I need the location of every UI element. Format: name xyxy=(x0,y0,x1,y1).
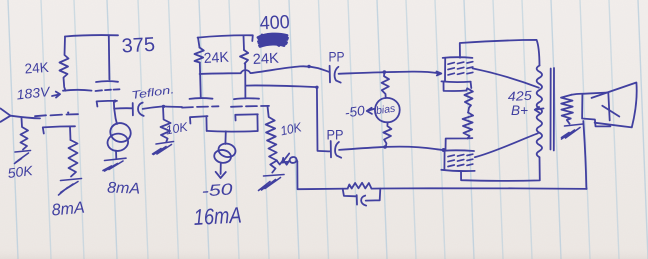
wire speaker to feedback xyxy=(583,121,586,189)
output tube V6 cathode xyxy=(441,170,474,171)
wire V4 cathode down xyxy=(256,114,258,131)
triode V4 cathode xyxy=(235,114,257,120)
speaker LS1 horn xyxy=(592,83,637,128)
resistor R4 10K xyxy=(161,106,171,141)
svg-text:375: 375 xyxy=(121,34,155,58)
ground for R4 xyxy=(153,142,174,155)
svg-text:16mA: 16mA xyxy=(193,203,242,230)
triode V2 plate xyxy=(96,80,118,83)
capacitor C3 PP (bottom) xyxy=(330,141,332,157)
svg-text:24K: 24K xyxy=(203,50,229,67)
potentiometer P1 wiper section xyxy=(277,160,290,165)
triode V3 cathode xyxy=(190,116,208,123)
transformer T1 core xyxy=(551,68,555,151)
resistor R8 (bias divider upper) xyxy=(382,72,389,98)
value label PP (C2) xyxy=(329,49,345,65)
svg-text:Teflon.: Teflon. xyxy=(131,84,175,102)
resistor R2 (V1 cathode) xyxy=(69,140,78,177)
wire V5 cathode to R10 xyxy=(444,82,467,92)
svg-text:B+: B+ xyxy=(511,103,528,118)
wire V5 plate to top rail xyxy=(460,40,540,66)
wire R6 to rail xyxy=(243,36,246,50)
current annotation 8mA (I1) xyxy=(107,180,141,198)
resistor R12 (feedback) xyxy=(348,183,372,189)
wire V3 cathode down xyxy=(205,116,207,131)
wire C1 to V3 grid xyxy=(143,106,182,109)
resistor R7 10K (V4 grid) xyxy=(266,106,277,173)
svg-text:10K: 10K xyxy=(279,119,304,138)
triode V1 cathode xyxy=(43,126,75,133)
svg-text:-50: -50 xyxy=(201,181,233,200)
feedback wire (right section) xyxy=(372,187,587,190)
bias adjust B1 (circle) xyxy=(375,98,400,122)
svg-text:8mA: 8mA xyxy=(107,180,141,198)
value label Teflon xyxy=(131,84,175,102)
resistor R6 24K xyxy=(240,50,248,64)
transformer T1 secondary xyxy=(561,95,573,119)
supply label -50 xyxy=(201,181,233,200)
svg-text:8mA: 8mA xyxy=(51,199,85,220)
supply rail 375 xyxy=(65,35,118,36)
svg-text:50K: 50K xyxy=(7,163,35,181)
supply label 375 xyxy=(121,34,155,58)
scribbled-out old value xyxy=(258,34,288,47)
speaker LS1 driver xyxy=(582,93,610,127)
wire V6 to bottom rail xyxy=(461,157,540,181)
current source I1 xyxy=(108,120,133,144)
wire secondary to ground xyxy=(567,119,571,124)
ground for R7 xyxy=(259,175,285,191)
triode V2 cathode xyxy=(97,101,117,107)
value label 10K xyxy=(165,120,190,138)
triode V1 plate xyxy=(63,89,92,92)
svg-text:24K: 24K xyxy=(24,59,50,77)
wire secondary to speaker xyxy=(572,93,583,96)
wire loop to feedback riser xyxy=(296,160,299,162)
label bias xyxy=(375,102,396,117)
resistor R9 (bias divider lower) xyxy=(383,122,391,146)
wire R5 to rail xyxy=(198,38,200,48)
resistor R11 xyxy=(463,113,474,139)
triode V2 grid (dashed) xyxy=(96,89,120,91)
value label 24K xyxy=(24,59,50,77)
feedback wire (left section) xyxy=(297,162,347,190)
resistor R5 24K xyxy=(195,48,204,63)
output tube V5 plate xyxy=(443,56,473,59)
svg-text:400: 400 xyxy=(259,12,290,35)
node label 183V with arrow xyxy=(52,92,60,98)
supply rail 400 xyxy=(198,35,253,41)
terminal loop P1 xyxy=(290,157,297,163)
wire V1 cathode to R2 xyxy=(69,127,72,141)
current annotation 8mA (V1) xyxy=(51,199,85,220)
svg-text:PP: PP xyxy=(327,127,344,143)
potentiometer wiper arrow xyxy=(282,154,289,163)
label 425 B+ with arrow xyxy=(507,88,533,118)
resistor R3 24K (V1 plate load) xyxy=(60,37,69,91)
output tube V5 left edge xyxy=(444,58,446,81)
svg-text:PP: PP xyxy=(329,49,345,65)
resistor R10 xyxy=(464,88,473,112)
triode V4 plate xyxy=(234,97,259,100)
current source I2 xyxy=(217,142,237,159)
svg-text:425: 425 xyxy=(507,88,533,104)
capacitor C4 (feedback bypass) xyxy=(343,189,356,197)
supply label -50 with arrow xyxy=(367,108,374,114)
wire joining V3/V4 cathodes xyxy=(207,130,258,133)
capacitor C1 Teflon xyxy=(132,103,134,115)
triode V1 grid (dashed) xyxy=(35,114,78,116)
output tube V5 grids (dashed rows) xyxy=(448,62,473,64)
wire screen tap top (ultralinear) xyxy=(473,68,539,87)
wire rail to V2 plate xyxy=(108,35,111,79)
wire tail to I2 xyxy=(224,131,226,144)
value label 24K (R6) xyxy=(252,51,279,68)
svg-text:bias: bias xyxy=(375,102,396,117)
value label 24K (R5) xyxy=(203,50,229,67)
wire A: V3 plate to C2 (with crossover hump) xyxy=(200,66,330,74)
triode V3 plate xyxy=(190,97,213,100)
wire V2 cathode down xyxy=(114,101,117,124)
wire C2 to V5 grid xyxy=(339,72,440,74)
output tube V5 cathode xyxy=(442,80,471,83)
wire B: V4 plate to C3 xyxy=(246,85,331,151)
output tube V6 left edge xyxy=(443,151,445,170)
capacitor C2 PP (top) xyxy=(329,66,331,83)
wire I1 to ground xyxy=(115,151,117,159)
wire C3 to V6 grid xyxy=(339,147,444,150)
ground for R2 xyxy=(59,179,82,196)
svg-text:183V: 183V xyxy=(16,84,52,103)
svg-text:24K: 24K xyxy=(252,51,279,68)
output tube V6 plate xyxy=(444,149,474,152)
wire V3 plate to R5 xyxy=(200,63,201,99)
input connector J1 xyxy=(1,109,11,122)
value label PP (C3) xyxy=(327,127,344,143)
current annotation 16mA xyxy=(193,203,242,230)
wire J1 to V1 grid xyxy=(11,116,41,119)
triode V4 grid (dashed) xyxy=(231,105,269,108)
wire cathode to C1 xyxy=(114,107,132,109)
value label 10K (R7) xyxy=(279,119,304,138)
svg-text:-50: -50 xyxy=(344,103,366,121)
ground for R1 xyxy=(15,151,31,164)
triode V3 grid (dashed) xyxy=(182,106,219,107)
ground for I1 xyxy=(103,158,126,171)
svg-text:10K: 10K xyxy=(165,120,190,138)
wire screen tap bottom (ultralinear) xyxy=(475,133,538,157)
value label 50K xyxy=(7,163,35,181)
supply label 400 xyxy=(259,12,290,35)
transformer T1 primary xyxy=(537,66,542,158)
output tube V6 grids (dashed rows) xyxy=(448,154,473,156)
wire I2 arrow to -50 xyxy=(216,163,226,178)
wire V4 plate to R6 xyxy=(244,64,246,99)
ground (secondary) xyxy=(562,124,584,139)
resistor R1 50K xyxy=(21,118,29,150)
wire R11 to V6 xyxy=(446,138,473,150)
